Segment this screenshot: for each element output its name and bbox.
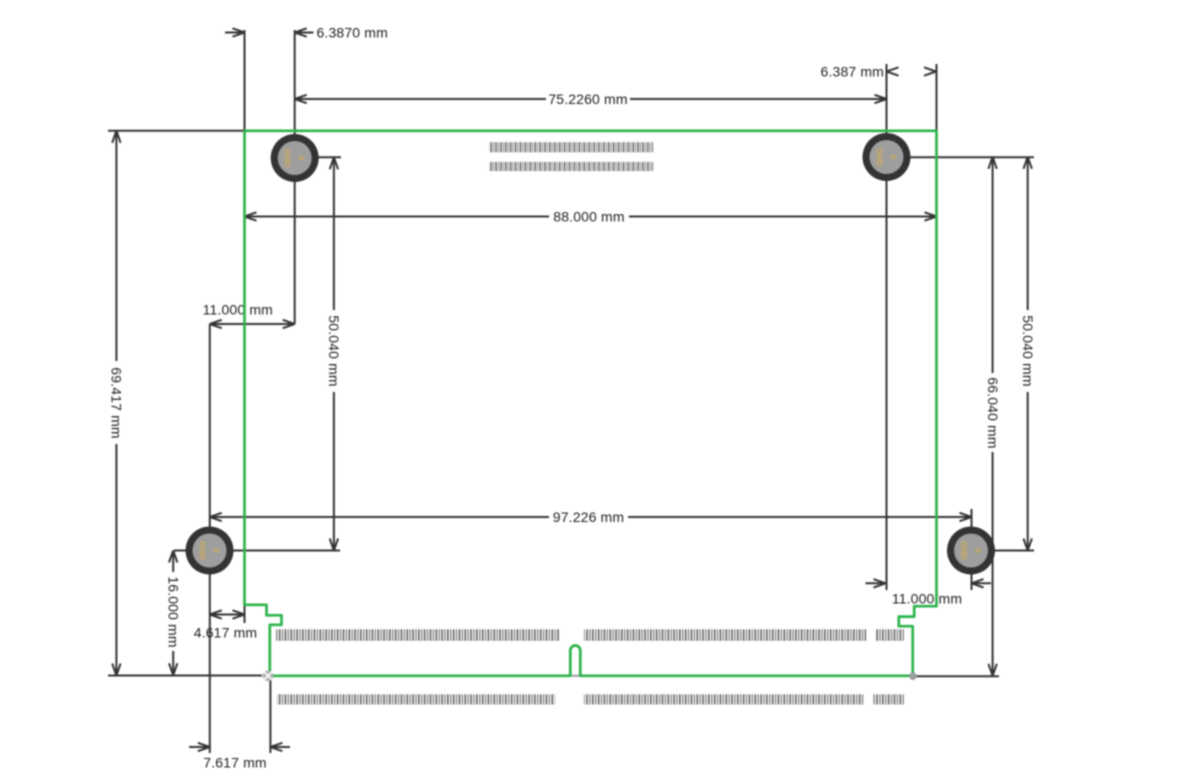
dimension 7.617 mm line: [189, 746, 210, 748]
extension line connector left edge: [269, 679, 271, 753]
svg-text:88.000 mm: 88.000 mm: [553, 208, 624, 224]
svg-text:6.387 mm: 6.387 mm: [821, 63, 884, 79]
extension line top-right hole horizontal: [887, 156, 1035, 158]
corner node right: [909, 672, 917, 680]
svg-text:4.617 mm: 4.617 mm: [194, 624, 257, 640]
extension line left edge at notch: [244, 606, 246, 623]
dimension 97.226 mm line: [210, 516, 549, 518]
svg-text:75.2260 mm: 75.2260 mm: [548, 91, 627, 107]
extension line top-left hole to 50.040 line: [295, 156, 341, 158]
dimension 66.040 mm line: [992, 157, 994, 373]
svg-text:GND: GND: [875, 148, 885, 167]
connector pads top row 1: [489, 142, 653, 152]
dimension 16.000 mm line: [172, 551, 174, 573]
svg-text:GND: GND: [198, 541, 208, 560]
dimension 6.3870 mm line: [225, 32, 245, 34]
extension line bottom-left hole horizontal: [174, 550, 340, 552]
connector pads top row 2: [489, 162, 653, 171]
dimension 11.000 mm right line: [866, 582, 886, 584]
dimension 6.387 mm arrows: [887, 67, 937, 75]
svg-text:7.617 mm: 7.617 mm: [203, 755, 266, 771]
extension line bottom edge horizontal right: [913, 675, 999, 677]
extension line left edge top: [244, 30, 246, 130]
svg-text:GND: GND: [283, 149, 293, 168]
mounting hole top-left GND: [271, 134, 319, 182]
svg-text:69.417 mm: 69.417 mm: [109, 367, 125, 438]
svg-text:50.040 mm: 50.040 mm: [326, 315, 342, 386]
dimension 88.000 mm line: [245, 216, 550, 218]
extension line top-right hole vertical: [886, 64, 888, 590]
extension line top edge horizontal: [108, 130, 244, 132]
svg-text:0: 0: [297, 156, 307, 161]
svg-text:50.040 mm: 50.040 mm: [1020, 315, 1036, 386]
mounting hole bottom-right GND: [947, 527, 995, 575]
extension line bottom-right hole vertical: [971, 509, 973, 590]
extension line top-left hole vertical: [294, 30, 296, 324]
svg-text:0: 0: [889, 155, 899, 160]
extension line bottom-right hole horizontal: [971, 550, 1034, 552]
svg-text:GND: GND: [959, 541, 969, 560]
PCB board outline: [245, 131, 937, 676]
connector pads bottom lower row: [277, 694, 905, 704]
svg-text:0: 0: [973, 548, 983, 553]
svg-text:97.226 mm: 97.226 mm: [553, 509, 624, 525]
connector pads bottom upper row: [276, 629, 905, 641]
dimension 4.617 mm line: [210, 614, 245, 616]
dimension 50.040 mm right line: [1027, 157, 1029, 310]
dimension 11.000 mm left line: [210, 323, 295, 325]
svg-text:16.000 mm: 16.000 mm: [165, 576, 181, 647]
mounting hole bottom-left GND: [186, 527, 234, 575]
svg-text:6.3870 mm: 6.3870 mm: [317, 24, 388, 40]
svg-text:66.040 mm: 66.040 mm: [985, 377, 1001, 448]
svg-text:11.000 mm: 11.000 mm: [203, 302, 273, 318]
svg-text:0: 0: [212, 548, 222, 553]
dimension 69.417 mm line: [115, 131, 117, 361]
mounting hole top-right GND: [863, 133, 911, 181]
dimension 50.040 mm left line: [333, 157, 335, 310]
origin marker: [263, 670, 274, 681]
svg-text:11.000 mm: 11.000 mm: [892, 591, 962, 607]
extension line bottom-left hole vertical: [209, 324, 211, 753]
key notch base gray segment: [572, 675, 580, 677]
dimension 75.2260 mm line: [295, 98, 546, 100]
extension line bottom edge horizontal left: [108, 675, 262, 677]
extension line right edge top: [936, 64, 938, 130]
